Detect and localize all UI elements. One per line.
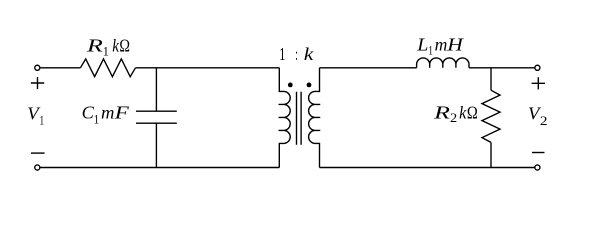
terminal top-left: [35, 65, 40, 70]
svg-text:2: 2: [450, 110, 457, 125]
polarity dot secondary: [307, 83, 312, 88]
svg-text:1: 1: [40, 113, 45, 128]
svg-text:m: m: [435, 35, 448, 55]
svg-text::: :: [295, 44, 298, 64]
terminal bottom-left: [35, 165, 40, 170]
transformer primary winding: [279, 68, 291, 168]
svg-text:Ω: Ω: [467, 103, 478, 123]
svg-text:H: H: [446, 35, 465, 55]
capacitor C1: [136, 111, 177, 123]
wire bottom-right: [320, 167, 535, 169]
wire R2 bottom stub: [490, 142, 492, 167]
svg-text:1: 1: [94, 111, 99, 126]
svg-text:C: C: [82, 103, 95, 123]
transformer secondary winding: [309, 68, 321, 168]
svg-text:m: m: [101, 103, 114, 123]
minus sign left: [31, 152, 45, 154]
wire R1 to transformer primary top: [136, 67, 280, 69]
svg-text:F: F: [113, 103, 129, 123]
terminal bottom-right: [535, 165, 540, 170]
svg-text:1: 1: [279, 44, 285, 64]
resistor R2: [482, 90, 500, 142]
wire bottom-left: [40, 167, 279, 169]
wire L1 to terminal top-right: [469, 67, 535, 69]
polarity dot primary: [288, 83, 293, 88]
svg-text:R: R: [86, 36, 104, 56]
transformer core: [297, 92, 302, 145]
plus sign left: [31, 77, 44, 89]
terminal top-right: [535, 65, 540, 70]
svg-text:k: k: [304, 44, 315, 64]
plus sign right: [532, 77, 545, 89]
inductor L1: [417, 58, 469, 68]
wire capacitor bottom stub: [155, 123, 157, 167]
svg-text:1: 1: [428, 43, 433, 58]
svg-text:Ω: Ω: [119, 36, 130, 56]
minus sign right: [532, 152, 545, 154]
wire top-left to R1: [40, 67, 80, 69]
svg-text:R: R: [433, 103, 451, 123]
wire capacitor top stub: [155, 68, 157, 111]
svg-text:1: 1: [103, 43, 109, 58]
svg-text:2: 2: [540, 113, 548, 128]
wire secondary top to L1: [320, 67, 417, 69]
wire R2 top stub: [490, 68, 492, 90]
resistor R1: [80, 59, 135, 77]
svg-text:L: L: [416, 35, 428, 55]
